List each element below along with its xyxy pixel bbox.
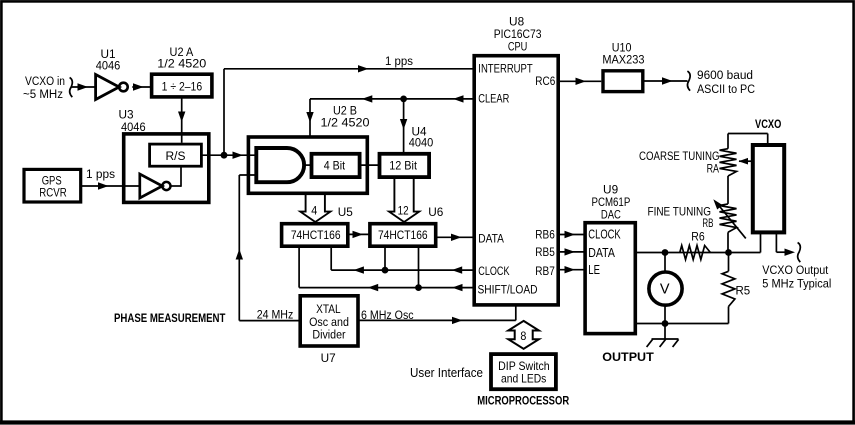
wire U10 to PC 9600 baud xyxy=(645,80,688,82)
svg-text:R6: R6 xyxy=(691,230,705,244)
GPS receiver xyxy=(24,169,81,202)
svg-text:74HCT166: 74HCT166 xyxy=(291,229,341,242)
bus arrow 12 xyxy=(389,177,419,222)
wire U1 to U2A xyxy=(132,86,150,88)
svg-text:U7: U7 xyxy=(321,351,336,365)
svg-text:VCXO Output: VCXO Output xyxy=(762,263,829,277)
svg-text:SHIFT/LOAD: SHIFT/LOAD xyxy=(478,283,538,297)
svg-text:CLOCK: CLOCK xyxy=(478,264,509,278)
svg-text:4040: 4040 xyxy=(409,136,434,150)
svg-text:RA: RA xyxy=(707,162,720,176)
bus 8 CPU to DIP xyxy=(508,321,539,349)
svg-text:24 MHz: 24 MHz xyxy=(257,307,294,321)
svg-text:RB5: RB5 xyxy=(535,245,555,259)
svg-text:4: 4 xyxy=(311,204,317,218)
svg-text:V: V xyxy=(660,282,670,298)
svg-text:VCXO in: VCXO in xyxy=(25,74,65,88)
register 4 Bit xyxy=(312,154,360,177)
svg-text:LE: LE xyxy=(588,262,600,277)
svg-text:R5: R5 xyxy=(736,284,751,298)
voltmeter V xyxy=(664,253,666,273)
svg-text:74HCT166: 74HCT166 xyxy=(378,229,428,242)
wire DAC low side xyxy=(635,323,728,325)
wire R/S output to AND xyxy=(201,154,256,156)
svg-text:RCVR: RCVR xyxy=(39,186,67,200)
svg-text:1/2 4520: 1/2 4520 xyxy=(157,57,206,71)
wire RB5 to DAC DATA xyxy=(558,251,585,253)
oscillator U7 XTAL xyxy=(300,296,358,346)
wire U6 to CPU DATA xyxy=(436,236,474,238)
svg-text:U5: U5 xyxy=(338,205,354,219)
svg-text:CLOCK: CLOCK xyxy=(588,227,621,242)
svg-text:OUTPUT: OUTPUT xyxy=(602,350,654,364)
svg-text:4 Bit: 4 Bit xyxy=(324,159,346,173)
svg-text:1 ÷ 2–16: 1 ÷ 2–16 xyxy=(162,81,203,94)
svg-text:CLEAR: CLEAR xyxy=(478,93,509,106)
wire SHIFT/LOAD net xyxy=(298,246,300,287)
svg-text:12: 12 xyxy=(398,204,409,218)
svg-text:~5 MHz: ~5 MHz xyxy=(23,87,63,101)
svg-text:XTAL: XTAL xyxy=(316,302,341,316)
svg-text:1 pps: 1 pps xyxy=(385,54,413,68)
svg-text:User Interface: User Interface xyxy=(410,366,483,380)
wire U5 to U6 xyxy=(348,233,370,235)
svg-text:MICROPROCESSOR: MICROPROCESSOR xyxy=(477,394,569,408)
svg-text:and LEDs: and LEDs xyxy=(501,371,546,385)
wire DAC output net xyxy=(635,252,760,254)
svg-text:CPU: CPU xyxy=(508,40,528,54)
svg-text:R/S: R/S xyxy=(166,151,186,163)
svg-text:Divider: Divider xyxy=(312,327,345,341)
AND gate xyxy=(256,148,304,182)
svg-text:5 MHz Typical: 5 MHz Typical xyxy=(762,276,831,290)
wire CLEAR to U4 xyxy=(403,99,405,154)
svg-text:PHASE MEASUREMENT: PHASE MEASUREMENT xyxy=(114,311,226,325)
wire 4 Bit to 12 Bit xyxy=(360,164,380,166)
ground xyxy=(664,324,666,340)
svg-text:INTERRUPT: INTERRUPT xyxy=(478,63,532,76)
svg-text:MAX233: MAX233 xyxy=(602,53,645,67)
wire inverter to R/S xyxy=(171,185,182,187)
svg-text:DAC: DAC xyxy=(601,207,621,221)
svg-text:RB7: RB7 xyxy=(535,264,555,278)
wire U2A to R/S xyxy=(181,97,183,143)
svg-text:4046: 4046 xyxy=(121,120,146,134)
wire VCXO low pin xyxy=(760,232,762,252)
svg-text:RB6: RB6 xyxy=(535,227,555,241)
svg-text:VCXO: VCXO xyxy=(755,117,781,131)
wire RA to VCXO top xyxy=(767,134,769,146)
svg-text:12 Bit: 12 Bit xyxy=(389,159,417,173)
svg-text:ASCII to PC: ASCII to PC xyxy=(697,82,755,96)
wire CLOCK net xyxy=(330,246,332,270)
wire RB7 to DAC LE xyxy=(558,269,585,271)
svg-text:9600 baud: 9600 baud xyxy=(697,68,753,82)
svg-text:1/2 4520: 1/2 4520 xyxy=(321,116,370,130)
wire VCXO in to U1 xyxy=(72,86,96,88)
svg-text:RC6: RC6 xyxy=(535,75,555,88)
svg-text:U6: U6 xyxy=(428,205,444,219)
wire RC6 to U10 xyxy=(558,80,601,82)
inverter in U3 xyxy=(140,174,163,198)
DIP switch and LEDs xyxy=(491,354,556,389)
svg-text:8: 8 xyxy=(520,329,526,343)
svg-text:RB: RB xyxy=(702,216,713,230)
node VCXO output xyxy=(775,232,777,252)
bus arrow 4 xyxy=(300,193,330,222)
wire RB6 to DAC CLOCK xyxy=(558,234,585,236)
svg-text:DATA: DATA xyxy=(478,231,504,245)
svg-text:4046: 4046 xyxy=(96,59,121,73)
wire AND to 4 Bit xyxy=(304,164,311,166)
flip-flop R/S xyxy=(150,144,202,166)
svg-text:1 pps: 1 pps xyxy=(86,167,115,181)
svg-text:DATA: DATA xyxy=(588,245,615,260)
wire CLEAR net xyxy=(310,98,474,100)
